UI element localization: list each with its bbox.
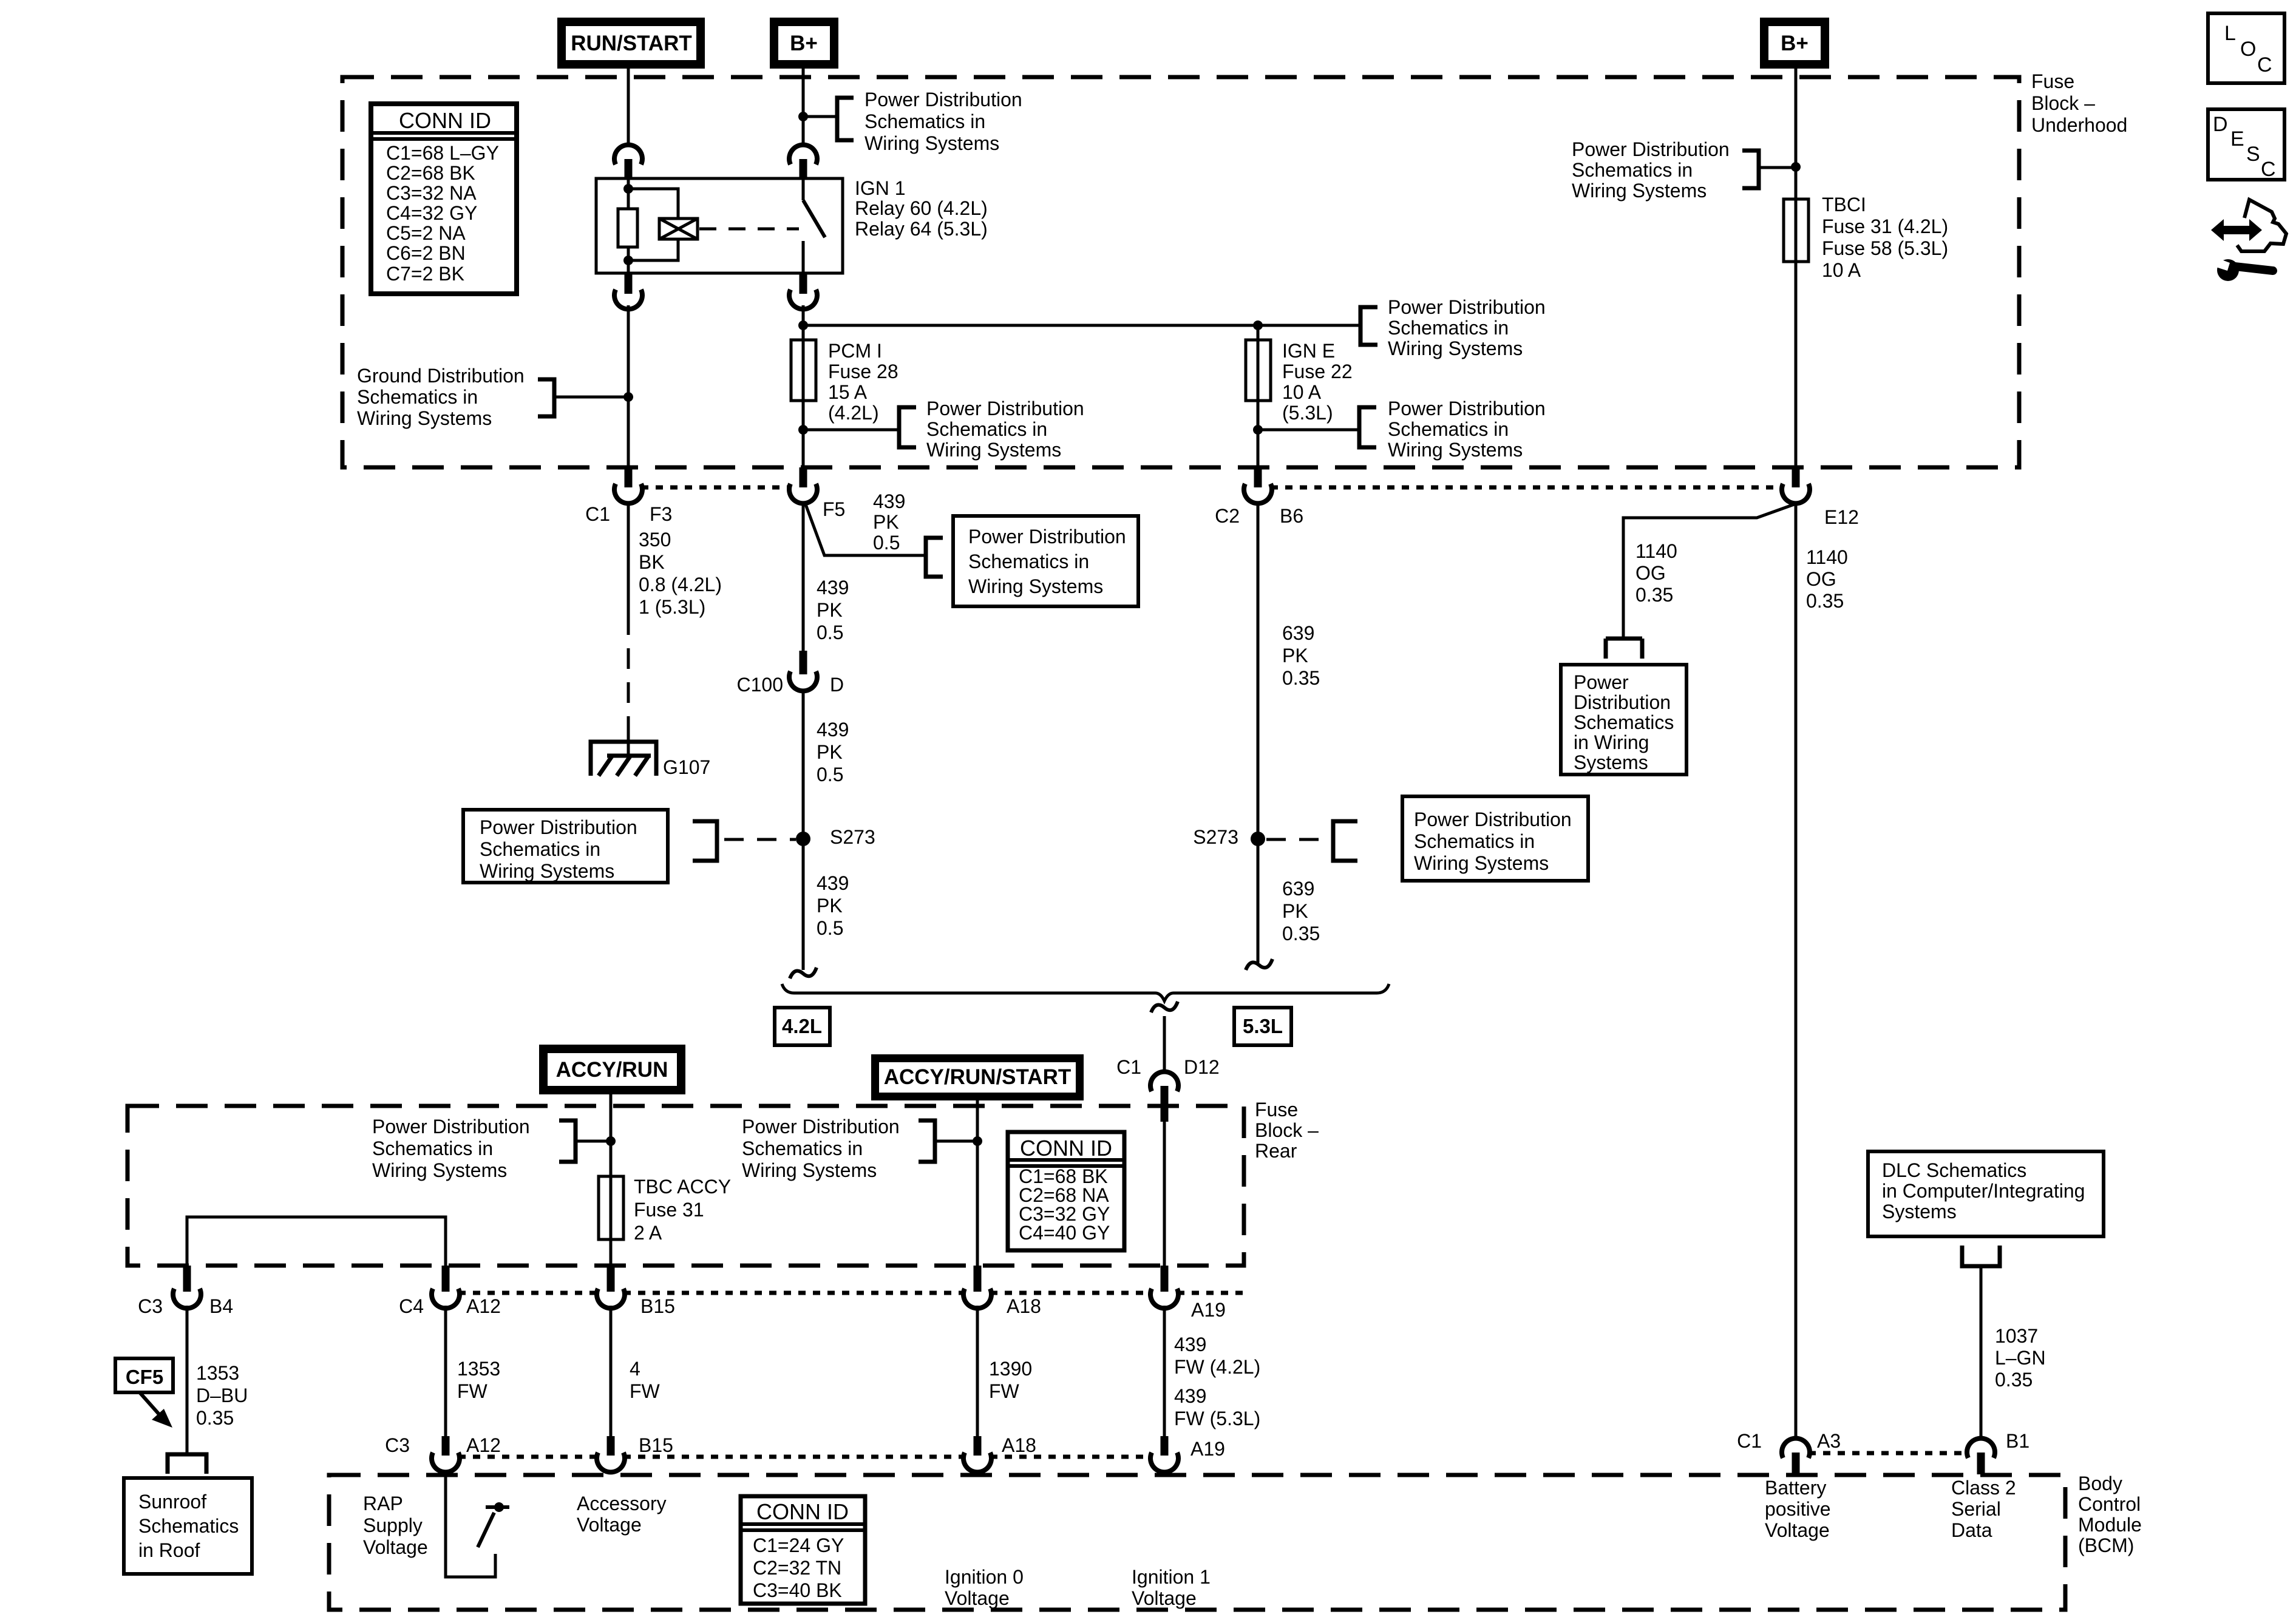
svg-text:C1: C1 [1116, 1056, 1141, 1078]
wire 1353 D-BU to sunroof [187, 1306, 248, 1454]
svg-text:Fuse: Fuse [2031, 70, 2074, 92]
svg-text:C2=32 TN: C2=32 TN [753, 1557, 841, 1579]
svg-text:C1: C1 [585, 503, 610, 525]
svg-text:Fuse 22: Fuse 22 [1282, 361, 1353, 382]
svg-text:in Roof: in Roof [138, 1539, 200, 1561]
svg-text:D12: D12 [1184, 1056, 1220, 1078]
svg-text:Voltage: Voltage [1765, 1519, 1830, 1541]
svg-text:C4: C4 [399, 1295, 424, 1317]
svg-text:Schematics: Schematics [1574, 711, 1674, 733]
svg-text:B15: B15 [640, 1295, 675, 1317]
svg-text:Wiring Systems: Wiring Systems [1414, 852, 1549, 874]
svg-text:F3: F3 [650, 503, 672, 525]
connector relay out left [614, 273, 642, 309]
svg-text:Battery: Battery [1765, 1477, 1826, 1499]
svg-text:639: 639 [1282, 622, 1314, 644]
svg-text:Power Distribution: Power Distribution [480, 816, 637, 838]
svg-text:Ignition 1: Ignition 1 [1132, 1566, 1211, 1588]
svg-text:RAP: RAP [363, 1493, 403, 1514]
svg-text:O: O [2240, 38, 2256, 61]
reference box DLC Schematics [1868, 1151, 2104, 1236]
svg-text:CONN ID: CONN ID [1020, 1136, 1112, 1161]
connector C2/B6 [1215, 467, 1303, 527]
svg-text:0.35: 0.35 [196, 1407, 234, 1429]
wire 1140 OG main E12 to BCM [1796, 503, 1848, 1439]
svg-text:FW (5.3L): FW (5.3L) [1174, 1408, 1260, 1429]
svg-text:Schematics in: Schematics in [926, 418, 1047, 440]
connector C100/D [737, 651, 844, 696]
connector E12 [1782, 467, 1859, 528]
reference box PDS at E12 branch [1561, 665, 1686, 775]
svg-text:1140: 1140 [1806, 546, 1848, 568]
stub PDS below PCM I [798, 398, 1084, 461]
svg-text:C3: C3 [138, 1295, 163, 1317]
svg-text:C3: C3 [385, 1434, 410, 1456]
svg-text:Relay 60 (4.2L): Relay 60 (4.2L) [855, 197, 988, 219]
svg-text:439: 439 [817, 872, 849, 894]
wire ACCY/RUN to TBC ACCY [606, 1094, 616, 1176]
wire 1353 FW [446, 1306, 500, 1439]
svg-text:Power Distribution: Power Distribution [968, 526, 1126, 547]
svg-text:PCM I: PCM I [828, 340, 882, 362]
fuse TBC ACCY Fuse 31 [599, 1176, 731, 1244]
wire TBCI to E12 [1795, 262, 1798, 467]
svg-text:positive: positive [1765, 1498, 1831, 1520]
svg-text:Fuse 58 (5.3L): Fuse 58 (5.3L) [1822, 237, 1948, 259]
label Accessory Voltage [577, 1493, 667, 1536]
svg-text:0.5: 0.5 [817, 622, 843, 643]
LOC reference box [2208, 13, 2284, 83]
connector C1/A3 [1737, 1430, 1841, 1474]
jumper wire B4 to A12 [187, 1217, 446, 1267]
dotted connector row BCM left [458, 1455, 1152, 1459]
svg-text:10 A: 10 A [1822, 259, 1861, 281]
svg-text:Wiring Systems: Wiring Systems [372, 1159, 507, 1181]
connector C3/A12 lower [385, 1434, 501, 1472]
svg-text:Class 2: Class 2 [1951, 1477, 2016, 1499]
svg-text:Module: Module [2078, 1514, 2142, 1536]
dotted connector row BCM right [1809, 1451, 1968, 1456]
svg-text:Sunroof: Sunroof [138, 1491, 206, 1513]
wire 439 FW [1164, 1306, 1260, 1439]
svg-text:439: 439 [1174, 1334, 1206, 1355]
svg-text:BK: BK [639, 551, 665, 573]
label RUN/START [557, 18, 705, 69]
reference box PDS at F5 branch [953, 516, 1138, 606]
svg-text:Schematics in: Schematics in [1414, 830, 1535, 852]
connector C1/F3 [585, 467, 672, 525]
svg-text:A12: A12 [466, 1434, 501, 1456]
svg-text:L: L [2224, 22, 2236, 45]
stub PDS at ACCY/RUN [372, 1116, 611, 1181]
svg-text:S: S [2246, 143, 2260, 166]
svg-text:Power Distribution: Power Distribution [926, 398, 1084, 419]
svg-text:Voltage: Voltage [363, 1536, 428, 1558]
svg-text:4: 4 [630, 1358, 640, 1380]
svg-text:C6=2 BN: C6=2 BN [386, 242, 466, 264]
svg-text:IGN 1: IGN 1 [855, 177, 906, 199]
svg-text:Data: Data [1951, 1519, 1992, 1541]
RAP switch [446, 1472, 509, 1577]
svg-text:C4=40 GY: C4=40 GY [1019, 1222, 1110, 1244]
svg-text:ACCY/RUN/START: ACCY/RUN/START [884, 1065, 1072, 1089]
svg-text:C1=24 GY: C1=24 GY [753, 1534, 844, 1556]
svg-text:Power Distribution: Power Distribution [864, 89, 1022, 110]
svg-text:F5: F5 [823, 498, 845, 520]
sunroof reference bracket [168, 1454, 206, 1474]
svg-text:Power Distribution: Power Distribution [1414, 808, 1572, 830]
svg-text:G107: G107 [663, 756, 710, 778]
svg-text:in Computer/Integrating: in Computer/Integrating [1882, 1180, 2085, 1202]
svg-text:15 A: 15 A [828, 381, 868, 403]
svg-text:Power Distribution: Power Distribution [372, 1116, 530, 1137]
reference box PDS at S273 right [1402, 796, 1588, 881]
svg-text:Fuse: Fuse [1255, 1099, 1298, 1120]
wire 4 FW [611, 1306, 661, 1439]
svg-text:C: C [2257, 53, 2272, 76]
svg-text:(4.2L): (4.2L) [828, 402, 879, 424]
svg-text:A18: A18 [1002, 1434, 1036, 1456]
CONN ID table rear [1008, 1132, 1124, 1250]
label CF5 with arrow [115, 1358, 173, 1428]
wire 439 PK F5 to C100 [803, 503, 849, 651]
dotted connector row underhood [641, 486, 1783, 490]
svg-text:OG: OG [1635, 562, 1666, 584]
label Ignition 0 Voltage [945, 1566, 1024, 1609]
svg-text:B4: B4 [209, 1295, 233, 1317]
svg-text:439: 439 [1174, 1385, 1206, 1407]
CONN ID table BCM [741, 1496, 865, 1604]
connector A18 upper [963, 1266, 1041, 1317]
svg-text:1037: 1037 [1995, 1325, 2038, 1347]
svg-text:Block –: Block – [1255, 1119, 1319, 1141]
svg-text:Ground Distribution: Ground Distribution [357, 365, 525, 387]
label Battery positive Voltage [1765, 1477, 1831, 1541]
wire IGN E to B6 [1257, 401, 1260, 467]
label B+ left [770, 18, 838, 69]
reference box PDS at S273 left [463, 810, 668, 883]
wire 639 PK B6 to S273 [1258, 503, 1320, 839]
wire B+ to relay [798, 69, 808, 146]
wire D12 to A19 [1163, 1122, 1166, 1267]
svg-text:Wiring Systems: Wiring Systems [1388, 439, 1523, 461]
svg-text:B1: B1 [2006, 1430, 2029, 1452]
wire 639 PK S273 to merge [1246, 839, 1320, 970]
connector A18 lower [963, 1434, 1036, 1472]
svg-text:D–BU: D–BU [196, 1385, 248, 1406]
relay IGN 1 [596, 177, 988, 273]
svg-text:Wiring Systems: Wiring Systems [1572, 180, 1707, 202]
svg-text:2 A: 2 A [634, 1222, 662, 1244]
label Class 2 Serial Data [1951, 1477, 2016, 1541]
junction S273 left [693, 821, 875, 861]
svg-text:0.5: 0.5 [817, 917, 843, 939]
service icon arrow and wrench [2211, 200, 2286, 281]
svg-text:Underhood: Underhood [2031, 114, 2127, 136]
connector A19 upper [1150, 1266, 1226, 1321]
svg-text:PK: PK [817, 741, 843, 763]
svg-text:Wiring Systems: Wiring Systems [968, 575, 1103, 597]
svg-text:S273: S273 [830, 826, 875, 848]
fuse block rear boundary [127, 1106, 1244, 1266]
DLC reference bracket [1962, 1246, 2000, 1266]
svg-text:5.3L: 5.3L [1243, 1015, 1283, 1037]
label Fuse Block Rear [1255, 1099, 1319, 1162]
svg-text:L–GN: L–GN [1995, 1347, 2046, 1369]
svg-text:0.35: 0.35 [1995, 1369, 2033, 1391]
svg-text:Fuse 31 (4.2L): Fuse 31 (4.2L) [1822, 215, 1948, 237]
wire 350 BK [628, 503, 722, 757]
svg-text:FW (4.2L): FW (4.2L) [1174, 1356, 1260, 1378]
connector C3/B4 [138, 1266, 233, 1317]
stub power distribution top [803, 89, 1022, 154]
svg-text:CONN ID: CONN ID [399, 108, 491, 133]
svg-text:439: 439 [817, 719, 849, 741]
svg-text:in Wiring: in Wiring [1574, 731, 1649, 753]
svg-text:CF5: CF5 [126, 1366, 163, 1388]
bus wire B+ distribution [798, 320, 1360, 330]
wire B+ to TBCI [1791, 69, 1801, 199]
stub PDS right of bus [1360, 296, 1546, 359]
label RAP Supply Voltage [363, 1493, 428, 1558]
reference box Sunroof Schematics in Roof [124, 1478, 252, 1574]
svg-text:Wiring Systems: Wiring Systems [864, 132, 999, 154]
svg-text:D: D [830, 674, 844, 696]
wire TBC ACCY to B15 [610, 1239, 613, 1267]
svg-text:Rear: Rear [1255, 1140, 1297, 1162]
svg-text:Power Distribution: Power Distribution [1388, 296, 1546, 318]
svg-text:A3: A3 [1817, 1430, 1841, 1452]
svg-text:Schematics in: Schematics in [372, 1137, 493, 1159]
fuse PCM I Fuse 28 [791, 340, 898, 424]
svg-text:Schematics in: Schematics in [1388, 418, 1509, 440]
wire 1140 OG branch to reference [1606, 504, 1796, 659]
svg-text:Schematics: Schematics [138, 1515, 239, 1537]
svg-text:C4=32 GY: C4=32 GY [386, 202, 477, 224]
label Body Control Module BCM [2078, 1473, 2142, 1556]
connector C4/A12 [399, 1266, 501, 1317]
wire 1037 L-GN [1981, 1266, 2046, 1439]
svg-text:Fuse 28: Fuse 28 [828, 361, 898, 382]
svg-text:(BCM): (BCM) [2078, 1534, 2134, 1556]
svg-text:FW: FW [989, 1380, 1020, 1402]
stub PDS at ACCY/RUN/START [742, 1116, 977, 1181]
connector F5 [789, 467, 845, 520]
svg-text:Serial: Serial [1951, 1498, 2001, 1520]
fuse IGN E Fuse 22 [1246, 325, 1353, 424]
svg-text:C: C [2261, 158, 2276, 181]
svg-text:PK: PK [817, 599, 843, 621]
svg-text:4.2L: 4.2L [782, 1015, 822, 1037]
label 5.3L [1234, 1008, 1291, 1045]
label Ignition 1 Voltage [1132, 1566, 1211, 1609]
svg-text:Wiring Systems: Wiring Systems [926, 439, 1061, 461]
svg-text:1353: 1353 [457, 1358, 500, 1380]
label ACCY/RUN/START [871, 1054, 1084, 1100]
svg-text:1140: 1140 [1635, 540, 1677, 562]
svg-text:C1=68 L–GY: C1=68 L–GY [386, 142, 499, 164]
svg-text:1 (5.3L): 1 (5.3L) [639, 596, 705, 618]
svg-text:0.35: 0.35 [1282, 923, 1320, 944]
stub PDS right B+ [1572, 138, 1796, 202]
svg-text:0.5: 0.5 [873, 532, 900, 554]
svg-text:PK: PK [1282, 900, 1308, 922]
svg-text:C5=2 NA: C5=2 NA [386, 222, 466, 244]
svg-text:Body: Body [2078, 1473, 2122, 1494]
svg-text:C100: C100 [737, 674, 784, 696]
svg-text:RUN/START: RUN/START [571, 32, 692, 55]
svg-text:Power: Power [1574, 671, 1629, 693]
ground G107 [591, 742, 710, 778]
svg-text:Supply: Supply [363, 1514, 423, 1536]
wire 439 PK branch at F5 [806, 490, 943, 577]
svg-text:Accessory: Accessory [577, 1493, 667, 1514]
svg-text:B+: B+ [790, 32, 818, 55]
svg-text:TBCI: TBCI [1822, 194, 1866, 215]
svg-text:Schematics in: Schematics in [480, 838, 600, 860]
connector B15 upper [597, 1266, 675, 1317]
body control module boundary [329, 1475, 2065, 1610]
svg-text:Wiring Systems: Wiring Systems [357, 407, 492, 429]
svg-text:Voltage: Voltage [945, 1587, 1010, 1609]
svg-text:Schematics in: Schematics in [1572, 159, 1693, 181]
svg-text:Relay 64 (5.3L): Relay 64 (5.3L) [855, 218, 988, 240]
svg-text:Block –: Block – [2031, 92, 2095, 114]
svg-text:1353: 1353 [196, 1362, 239, 1384]
svg-text:D: D [2213, 113, 2228, 136]
svg-text:PK: PK [873, 511, 899, 533]
wire RUN/START to relay [627, 69, 630, 146]
svg-text:0.35: 0.35 [1282, 667, 1320, 689]
label B+ right [1760, 18, 1829, 69]
svg-text:Schematics in: Schematics in [864, 110, 985, 132]
svg-text:CONN ID: CONN ID [756, 1499, 849, 1524]
fuse block underhood boundary [342, 77, 2019, 467]
label ACCY/RUN [539, 1045, 685, 1094]
label Fuse Block Underhood [2031, 70, 2127, 136]
svg-text:C2=68 BK: C2=68 BK [386, 162, 475, 184]
wire PCM I to F5 [802, 401, 805, 467]
connector C1/D12 [1116, 1056, 1220, 1122]
svg-text:B15: B15 [639, 1434, 673, 1456]
svg-text:A12: A12 [466, 1295, 501, 1317]
svg-text:Wiring Systems: Wiring Systems [742, 1159, 877, 1181]
svg-text:Schematics in: Schematics in [1388, 317, 1509, 339]
svg-text:C3=40 BK: C3=40 BK [753, 1579, 842, 1601]
svg-text:Power Distribution: Power Distribution [1388, 398, 1546, 419]
svg-text:OG: OG [1806, 568, 1836, 590]
connector B15 lower [597, 1434, 673, 1472]
svg-text:439: 439 [817, 577, 849, 598]
svg-text:Wiring Systems: Wiring Systems [480, 860, 614, 882]
wire 439 PK C100 to S273 [803, 691, 849, 839]
DESC reference box [2208, 109, 2284, 181]
svg-text:FW: FW [457, 1380, 488, 1402]
svg-text:Voltage: Voltage [1132, 1587, 1197, 1609]
dotted connector row rear [458, 1291, 1244, 1295]
svg-text:0.8 (4.2L): 0.8 (4.2L) [639, 574, 722, 595]
svg-text:E: E [2230, 127, 2244, 151]
svg-text:C2: C2 [1215, 505, 1240, 527]
svg-text:A19: A19 [1190, 1438, 1225, 1460]
svg-text:C3=32 NA: C3=32 NA [386, 182, 477, 204]
svg-text:439: 439 [873, 490, 905, 512]
svg-text:Ignition 0: Ignition 0 [945, 1566, 1024, 1588]
svg-text:TBC ACCY: TBC ACCY [634, 1176, 731, 1198]
svg-text:A18: A18 [1007, 1295, 1041, 1317]
svg-text:ACCY/RUN: ACCY/RUN [556, 1058, 668, 1082]
svg-text:Systems: Systems [1882, 1201, 1957, 1222]
svg-text:IGN E: IGN E [1282, 340, 1335, 362]
connector relay coil pin (dome) [614, 145, 642, 180]
svg-text:Distribution: Distribution [1574, 691, 1671, 713]
wire ACCY/RUN/START to A18 [973, 1100, 982, 1267]
svg-text:Control: Control [2078, 1493, 2141, 1515]
svg-text:PK: PK [817, 895, 843, 917]
svg-text:Power Distribution: Power Distribution [742, 1116, 900, 1137]
svg-text:S273: S273 [1193, 826, 1238, 848]
connector B1 [1967, 1430, 2029, 1474]
stub PDS below IGN E [1253, 398, 1546, 461]
svg-text:FW: FW [630, 1380, 661, 1402]
connector relay switch pin (dome) [789, 145, 817, 180]
svg-text:Schematics in: Schematics in [742, 1137, 863, 1159]
svg-text:(5.3L): (5.3L) [1282, 402, 1333, 424]
svg-text:DLC Schematics: DLC Schematics [1882, 1159, 2026, 1181]
svg-text:Fuse 31: Fuse 31 [634, 1199, 704, 1221]
svg-text:PK: PK [1282, 645, 1308, 666]
stub ground distribution [357, 365, 633, 429]
svg-text:639: 639 [1282, 878, 1314, 900]
wire relay to C1/F3 [627, 305, 630, 467]
connector relay out right [789, 273, 817, 309]
svg-text:A19: A19 [1191, 1299, 1226, 1321]
svg-text:Wiring Systems: Wiring Systems [1388, 337, 1523, 359]
svg-text:E12: E12 [1824, 506, 1859, 528]
svg-text:0.5: 0.5 [817, 764, 843, 785]
label 4.2L [775, 1008, 830, 1045]
wire 439 PK S273 to merge [790, 839, 849, 978]
connector A19 lower [1150, 1436, 1225, 1472]
svg-text:1390: 1390 [989, 1358, 1032, 1380]
svg-text:C7=2 BK: C7=2 BK [386, 263, 464, 285]
svg-text:Schematics in: Schematics in [968, 551, 1089, 572]
svg-text:B+: B+ [1781, 32, 1809, 55]
svg-text:C1: C1 [1737, 1430, 1762, 1452]
svg-text:0.35: 0.35 [1806, 590, 1844, 612]
svg-text:Voltage: Voltage [577, 1514, 642, 1536]
fuse TBCI [1784, 194, 1948, 281]
wire relay to bus [802, 305, 805, 340]
svg-text:Systems: Systems [1574, 751, 1648, 773]
svg-text:350: 350 [639, 529, 671, 551]
svg-text:B6: B6 [1280, 505, 1303, 527]
svg-text:Power Distribution: Power Distribution [1572, 138, 1730, 160]
svg-text:Schematics in: Schematics in [357, 386, 478, 408]
wire merge brace [782, 984, 1389, 1073]
junction S273 right [1193, 821, 1357, 861]
CONN ID table underhood [371, 104, 517, 294]
svg-text:10 A: 10 A [1282, 381, 1322, 403]
svg-text:0.35: 0.35 [1635, 584, 1673, 606]
wire 1390 FW [977, 1306, 1032, 1439]
